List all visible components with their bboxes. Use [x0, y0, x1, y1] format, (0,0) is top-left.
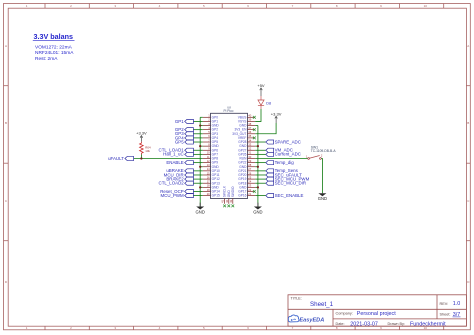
svg-text:39: 39: [248, 118, 251, 122]
svg-text:10: 10: [207, 151, 210, 155]
svg-text:Hall_1_uC: Hall_1_uC: [163, 152, 184, 157]
no-connect pin 41 SWCLK: [223, 205, 226, 208]
svg-text:Sheet_1: Sheet_1: [310, 301, 334, 308]
wire MCU_PWM to pin 20: [193, 195, 202, 197]
svg-text:+3.3V: +3.3V: [271, 111, 282, 116]
net port GP3: [175, 131, 193, 136]
wire GND pin 18: [200, 186, 203, 188]
junction left GND pin 3: [199, 124, 201, 126]
svg-text:1.0: 1.0: [453, 301, 461, 307]
svg-text:29: 29: [248, 159, 251, 163]
wire GP3 to pin 5: [193, 133, 202, 135]
svg-text:33: 33: [248, 142, 251, 146]
svg-text:41: 41: [221, 199, 225, 202]
svg-text:+3.3V: +3.3V: [136, 131, 147, 136]
svg-text:SEC_MCU_DIR: SEC_MCU_DIR: [275, 181, 306, 186]
net port uBRAKE: [166, 168, 193, 173]
ground (left of IC): [196, 203, 205, 215]
svg-text:+5V: +5V: [257, 83, 265, 88]
wire BRAKE2 to pin 16: [193, 178, 202, 180]
wire uFAULT to pin 11: [134, 158, 203, 160]
wire GND pin 28: [255, 166, 258, 168]
net port Current_ADC: [266, 152, 301, 157]
switch SW1 TC-1109-DB-B-A: [306, 146, 337, 160]
svg-text:31: 31: [248, 151, 251, 155]
svg-text:12: 12: [207, 159, 210, 163]
svg-text:40: 40: [248, 114, 251, 118]
svg-text:GP16: GP16: [238, 194, 246, 198]
power flag +3.3V (right): [271, 111, 282, 123]
svg-text:Company:: Company:: [336, 312, 353, 316]
svg-text:17: 17: [207, 180, 210, 184]
svg-text:GP1: GP1: [175, 119, 184, 124]
net port SEC_MCU_PWM: [266, 176, 310, 181]
svg-text:uFAULT: uFAULT: [108, 156, 124, 161]
wire SEC_MCU_PWM from pin 25: [255, 178, 266, 180]
net port GP2: [175, 127, 193, 132]
svg-text:34: 34: [248, 138, 251, 142]
no-connect pin 42 GND: [227, 205, 230, 208]
wire GND pin 1 GP0: [200, 116, 203, 118]
net port MCU_DIR: [164, 172, 194, 177]
svg-text:SEC_ENABLE: SEC_ENABLE: [275, 193, 304, 198]
svg-text:SPARE_ADC: SPARE_ADC: [275, 139, 301, 144]
net port Temp_Sens: [266, 168, 299, 173]
ic U8 Pi Pico: [203, 106, 255, 204]
net port GP4: [175, 135, 193, 140]
net port GP5: [175, 139, 193, 144]
svg-text:10k: 10k: [145, 149, 150, 153]
svg-text:GND: GND: [196, 209, 205, 214]
wire VM_ADC from pin 32: [255, 149, 266, 151]
svg-text:NRF24L01: 15mA: NRF24L01: 15mA: [35, 50, 74, 56]
wire R04 to uFAULT net: [140, 155, 142, 159]
svg-text:CTL_LOAD2: CTL_LOAD2: [159, 181, 185, 186]
wire CTL_LOAD2 to pin 17: [193, 182, 202, 184]
svg-text:27: 27: [248, 167, 251, 171]
wire Current_ADC from pin 31: [255, 153, 266, 155]
svg-text:38: 38: [248, 122, 251, 126]
svg-text:18: 18: [207, 184, 210, 188]
svg-text:25: 25: [248, 175, 251, 179]
wire GND pin 38: [255, 125, 258, 127]
svg-text:B: B: [5, 121, 7, 125]
svg-text:43: 43: [229, 199, 233, 202]
svg-text:GP5: GP5: [175, 139, 184, 144]
junction right GND pin 23: [257, 186, 259, 188]
svg-text:Current_ADC: Current_ADC: [275, 152, 301, 157]
wire Temp_dig from pin 29: [255, 162, 266, 164]
wire MCU_DIR to pin 15: [193, 174, 202, 176]
net port SEC_ENABLE: [266, 193, 304, 198]
net port CTL_LOAD2: [159, 181, 194, 186]
svg-text:3.3V balans: 3.3V balans: [34, 32, 74, 41]
wire GP1 to pin 2: [193, 120, 202, 122]
wire +3.3V to 3V3_OUT pin 36: [255, 123, 276, 134]
wire GP5 to pin 7: [193, 141, 202, 143]
svg-text:MCU_PWM: MCU_PWM: [161, 193, 185, 198]
junction left GND pin 18: [199, 186, 201, 188]
svg-text:Rest: 2mA: Rest: 2mA: [35, 56, 58, 62]
junction uFAULT/R04: [140, 157, 142, 159]
wire SW1 to ground: [321, 159, 322, 194]
wire right GND bus: [257, 126, 259, 207]
svg-text:24: 24: [248, 180, 251, 184]
svg-text:GP15: GP15: [212, 194, 220, 198]
svg-text:21: 21: [248, 192, 251, 196]
wire Hall_1_uC to pin 10: [193, 153, 202, 155]
svg-text:Drawn By:: Drawn By:: [388, 322, 406, 326]
svg-text:TC-1109-DB-B-A: TC-1109-DB-B-A: [311, 149, 337, 153]
svg-text:Pi Pico: Pi Pico: [224, 109, 234, 113]
svg-text:GND: GND: [253, 209, 262, 214]
net port BRAKE2: [166, 176, 193, 181]
power flag +3.3V (left): [136, 131, 147, 142]
svg-text:14: 14: [207, 167, 210, 171]
wire CTL_LOAD1 to pin 9: [193, 149, 202, 151]
svg-text:19: 19: [207, 188, 210, 192]
net port GP1: [175, 119, 193, 124]
svg-text:Date:: Date:: [336, 322, 345, 326]
no-connect pin 40 VBUS: [253, 116, 256, 119]
wire SEC_uFAULT from pin 26: [255, 174, 266, 176]
svg-text:30: 30: [248, 155, 251, 159]
wire GP2 to pin 4: [193, 129, 202, 131]
wire GND pin 13: [200, 166, 203, 168]
power flag +5V: [257, 83, 265, 96]
svg-text:D8: D8: [266, 102, 271, 106]
wire left GND bus: [199, 117, 201, 206]
wire D8 cathode to VSYS pin 39: [255, 109, 261, 121]
wire GND pin 3: [200, 125, 203, 127]
junction left GND pin 13: [199, 166, 201, 168]
wire GND pin 8: [200, 145, 203, 147]
svg-text:B: B: [467, 121, 469, 125]
wire GND pin 23: [255, 186, 258, 188]
net port Hall_1_uC: [163, 152, 193, 157]
no-connect pin 43 SWDIO: [231, 205, 234, 208]
wire SEC_ENABLE from pin 21: [255, 195, 266, 197]
no-connect pin 35 ADC_VREF: [253, 137, 256, 140]
ground (right of IC): [253, 203, 262, 215]
svg-text:GND: GND: [318, 196, 327, 201]
svg-text:32: 32: [248, 147, 251, 151]
svg-text:REV:: REV:: [440, 302, 449, 306]
wire Reset_OCP to pin 19: [193, 190, 202, 192]
svg-text:2021-03-07: 2021-03-07: [350, 321, 378, 327]
svg-text:16: 16: [207, 175, 210, 179]
resistor R04 10k: [140, 142, 151, 155]
wire SPARE_ADC from pin 34: [255, 141, 266, 143]
svg-text:37: 37: [248, 126, 251, 130]
svg-text:VOM1272: 22mA: VOM1272: 22mA: [35, 44, 73, 50]
net port CTL_LOAD1: [159, 148, 194, 153]
ground (SW1): [318, 193, 327, 201]
net port MCU_PWM: [161, 193, 194, 198]
svg-text:36: 36: [248, 130, 251, 134]
net port VM_ADC: [266, 148, 293, 153]
svg-text:Temp_dig: Temp_dig: [275, 160, 295, 165]
svg-text:Personal project: Personal project: [357, 311, 396, 317]
wire SEC_MCU_DIR from pin 24: [255, 182, 266, 184]
svg-text:20: 20: [207, 192, 210, 196]
wire Temp_Sens from pin 27: [255, 170, 266, 172]
svg-text:22: 22: [248, 188, 251, 192]
net port Reset_OCP: [160, 189, 193, 194]
junction left GND pin 8: [199, 145, 201, 147]
svg-text:TITLE:: TITLE:: [291, 296, 302, 300]
junction right GND pin 28: [257, 166, 259, 168]
svg-text:28: 28: [248, 163, 251, 167]
wire GP4 to pin 6: [193, 137, 202, 139]
wire RUN pin 30 to SW1: [255, 158, 307, 160]
svg-text:EasyEDA: EasyEDA: [299, 318, 324, 324]
diode D8: [258, 96, 271, 109]
svg-text:ENABLE: ENABLE: [166, 160, 183, 165]
net port SEC_MCU_DIR: [266, 181, 306, 186]
svg-text:Sheet:: Sheet:: [440, 313, 451, 317]
svg-text:26: 26: [248, 171, 251, 175]
svg-text:42: 42: [225, 199, 229, 202]
wire ENABLE to pin 12: [193, 162, 202, 164]
wire GND pin 33: [255, 145, 258, 147]
svg-text:35: 35: [248, 134, 251, 138]
net port ENABLE: [166, 160, 193, 165]
svg-text:A: A: [5, 44, 7, 48]
no-connect pin 37 3V3_EN: [253, 128, 256, 131]
no-connect pin 22 GP17: [253, 190, 256, 193]
svg-text:13: 13: [207, 163, 210, 167]
svg-text:23: 23: [248, 184, 251, 188]
wire uBRAKE to pin 14: [193, 170, 202, 172]
svg-text:15: 15: [207, 171, 210, 175]
net port Temp_dig: [266, 160, 294, 165]
net port uFAULT: [108, 156, 133, 161]
net port SEC_uFAULT: [266, 172, 302, 177]
junction right GND pin 33: [257, 145, 259, 147]
svg-text:SWDIO: SWDIO: [231, 186, 235, 197]
net port SPARE_ADC: [266, 139, 301, 144]
svg-text:10: 10: [424, 4, 428, 8]
svg-text:A: A: [467, 44, 469, 48]
svg-text:Fundeckhermit: Fundeckhermit: [410, 321, 446, 327]
